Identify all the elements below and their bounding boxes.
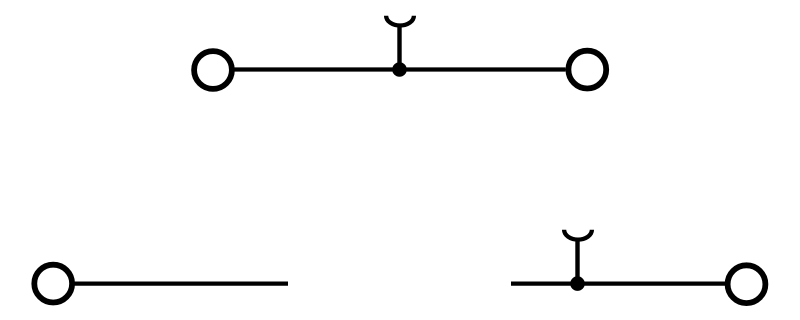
test tap fork upper level [386,16,414,26]
wire lower level right [511,281,726,285]
terminal circle 4 (lower level, right) [728,265,766,303]
junction dot lower level [570,276,585,291]
junction dot upper level [392,62,407,77]
wire lower level left (open end) [74,281,288,285]
wire test-tap stem upper level [397,27,401,70]
wire test-tap stem lower level [575,241,579,284]
terminal circle 1 (upper level, left) [194,51,232,89]
test tap fork lower level [564,230,592,240]
wire upper level [235,67,566,71]
terminal circle 3 (lower level, left) [34,265,72,303]
terminal circle 2 (upper level, right) [568,51,606,89]
